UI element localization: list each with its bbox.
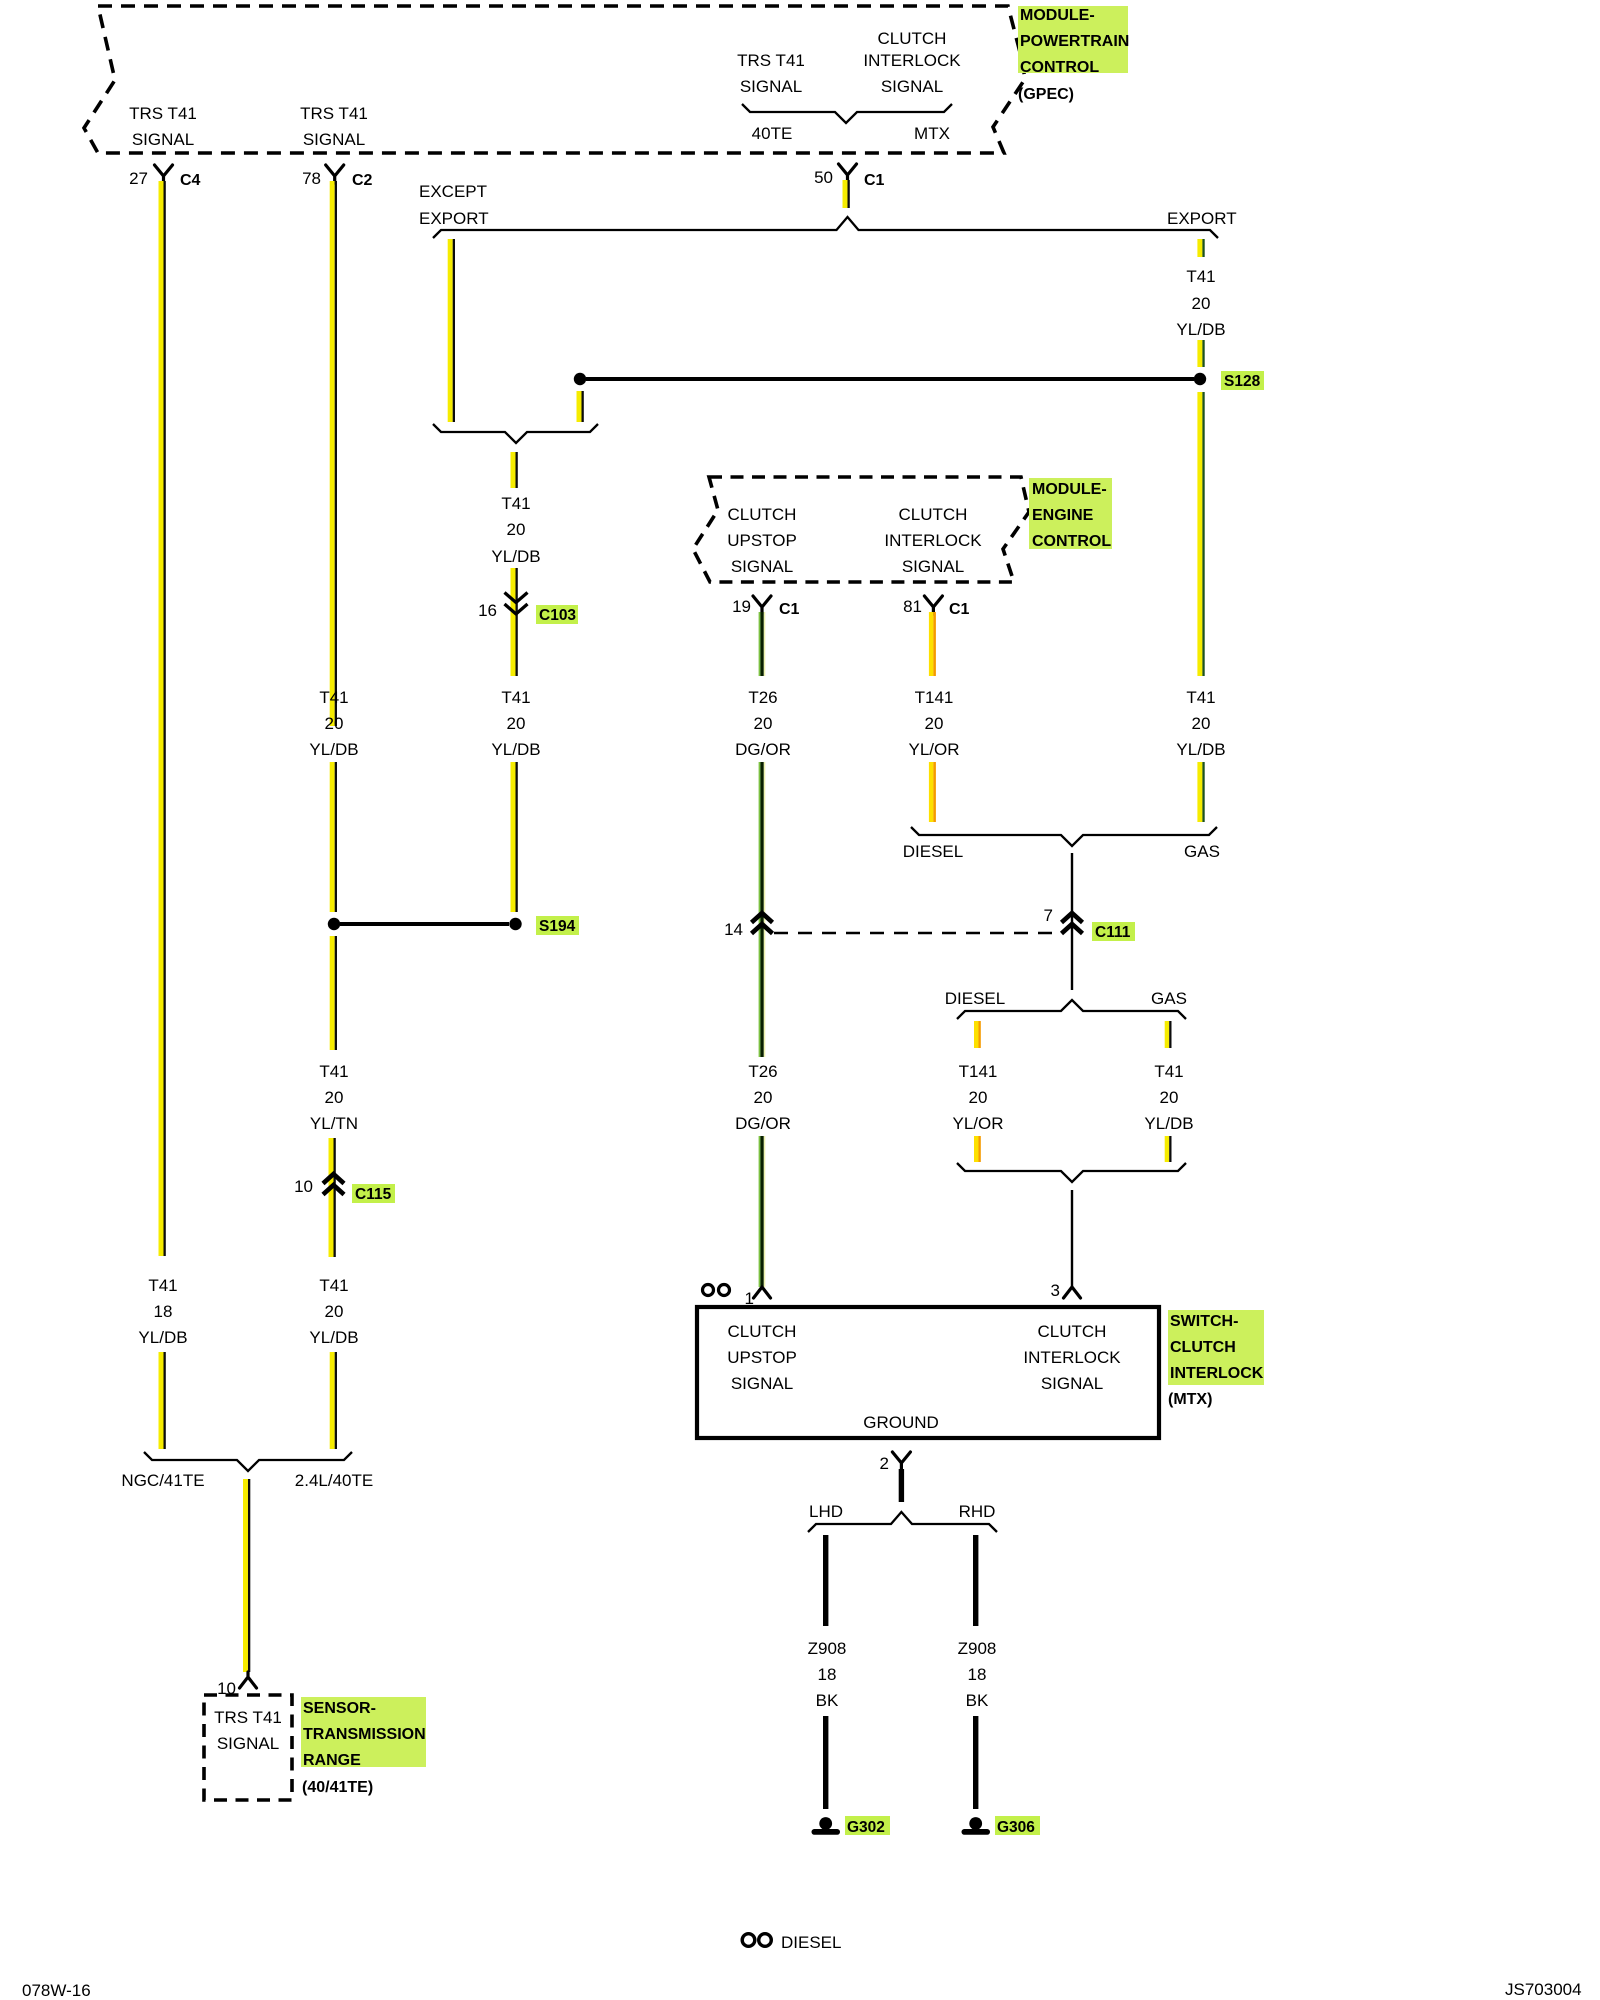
svg-text:YL/OR: YL/OR xyxy=(952,1114,1003,1133)
svg-text:Z908: Z908 xyxy=(808,1639,847,1658)
wire T41 YL/DB gas stub upper xyxy=(1165,1021,1172,1048)
svg-text:2.4L/40TE: 2.4L/40TE xyxy=(295,1471,373,1490)
svg-text:SIGNAL: SIGNAL xyxy=(731,557,793,576)
svg-text:T26: T26 xyxy=(748,688,777,707)
switch S1 CLUTCH INTERLOCK (MTX) box xyxy=(697,1307,1159,1438)
wire Z908 BK LHD lower xyxy=(823,1716,828,1809)
svg-text:SIGNAL: SIGNAL xyxy=(1041,1374,1103,1393)
svg-text:T41: T41 xyxy=(1186,267,1215,286)
ground G302 symbol xyxy=(819,1817,832,1830)
svg-text:YL/DB: YL/DB xyxy=(1176,740,1225,759)
svg-text:CLUTCH: CLUTCH xyxy=(878,29,947,48)
svg-text:EXPORT: EXPORT xyxy=(1167,209,1237,228)
svg-text:BK: BK xyxy=(966,1691,989,1710)
svg-text:SIGNAL: SIGNAL xyxy=(740,77,802,96)
svg-text:14: 14 xyxy=(724,920,743,939)
brace 40TE/MTX merge inside GPEC xyxy=(742,104,952,123)
svg-text:DIESEL: DIESEL xyxy=(945,989,1005,1008)
svg-text:20: 20 xyxy=(754,714,773,733)
svg-text:T41: T41 xyxy=(1154,1062,1183,1081)
svg-text:(MTX): (MTX) xyxy=(1168,1391,1212,1408)
svg-text:C103: C103 xyxy=(539,607,576,624)
wire T41 YL/DB gas stub lower xyxy=(1165,1136,1172,1162)
legend diesel marker OO xyxy=(742,1934,755,1947)
sensor B1 TRANSMISSION RANGE dashed box xyxy=(204,1695,292,1800)
svg-text:POWERTRAIN: POWERTRAIN xyxy=(1020,33,1129,50)
svg-text:INTERLOCK: INTERLOCK xyxy=(1170,1365,1264,1382)
svg-text:MODULE-: MODULE- xyxy=(1032,481,1107,498)
svg-text:20: 20 xyxy=(969,1088,988,1107)
svg-text:TRS T41: TRS T41 xyxy=(129,104,197,123)
svg-text:GAS: GAS xyxy=(1184,842,1220,861)
svg-text:078W-16: 078W-16 xyxy=(22,1981,91,2000)
svg-text:C115: C115 xyxy=(355,1186,392,1203)
svg-text:DG/OR: DG/OR xyxy=(735,740,791,759)
svg-text:GAS: GAS xyxy=(1151,989,1187,1008)
svg-text:T141: T141 xyxy=(959,1062,998,1081)
svg-text:10: 10 xyxy=(294,1177,313,1196)
splice S128 green tag xyxy=(1221,371,1264,390)
svg-text:78: 78 xyxy=(302,169,321,188)
svg-text:YL/DB: YL/DB xyxy=(1144,1114,1193,1133)
svg-text:NGC/41TE: NGC/41TE xyxy=(121,1471,204,1490)
wire Z908 BK RHD upper xyxy=(973,1535,978,1626)
node S128 junction dot (left) xyxy=(574,373,586,385)
wire C103 branch to S194 xyxy=(511,762,518,912)
svg-text:CLUTCH: CLUTCH xyxy=(1170,1339,1236,1356)
svg-text:SIGNAL: SIGNAL xyxy=(881,77,943,96)
svg-text:18: 18 xyxy=(818,1665,837,1684)
svg-text:INTERLOCK: INTERLOCK xyxy=(863,51,961,70)
ground G302 green tag xyxy=(845,1816,890,1835)
svg-text:YL/DB: YL/DB xyxy=(1176,320,1225,339)
svg-text:T41: T41 xyxy=(148,1276,177,1295)
wire T141 YL/OR stub below pin 81 xyxy=(929,612,936,676)
wire T26 DG/OR to switch pin1 xyxy=(759,1136,766,1287)
svg-text:19: 19 xyxy=(732,597,751,616)
module U1 POWERTRAIN CONTROL (GPEC) dashed outline xyxy=(84,6,1025,153)
wire C2 below label to S194 xyxy=(330,762,337,912)
svg-text:YL/DB: YL/DB xyxy=(491,740,540,759)
brace merge NGC/41TE + 2.4L/40TE xyxy=(144,1452,352,1471)
wire merged to switch pin 3 xyxy=(1071,1190,1073,1287)
svg-text:20: 20 xyxy=(754,1088,773,1107)
svg-text:T41: T41 xyxy=(501,494,530,513)
svg-text:T26: T26 xyxy=(748,1062,777,1081)
svg-text:MTX: MTX xyxy=(914,124,950,143)
svg-text:20: 20 xyxy=(1160,1088,1179,1107)
svg-text:C111: C111 xyxy=(1095,924,1131,941)
svg-text:UPSTOP: UPSTOP xyxy=(727,531,797,550)
svg-text:(GPEC): (GPEC) xyxy=(1018,86,1074,103)
wire C2 through C115 xyxy=(329,1138,336,1257)
svg-text:C1: C1 xyxy=(779,601,800,618)
svg-text:DG/OR: DG/OR xyxy=(735,1114,791,1133)
svg-text:C1: C1 xyxy=(949,601,970,618)
svg-text:SWITCH-: SWITCH- xyxy=(1170,1313,1238,1330)
brace split LHD/RHD xyxy=(808,1512,997,1532)
svg-text:YL/TN: YL/TN xyxy=(310,1114,358,1133)
green highlight SENSOR-TRANSMISSION RANGE xyxy=(301,1697,426,1767)
svg-text:20: 20 xyxy=(1192,294,1211,313)
svg-text:ENGINE: ENGINE xyxy=(1032,507,1094,524)
wire EXPORT branch T41 YL/DB top stub xyxy=(1197,239,1204,257)
wire C4 T41 YL/DB long run xyxy=(159,181,166,1256)
wire splice stub below S128 tee xyxy=(577,391,584,422)
wire C4 lower segment xyxy=(159,1352,166,1449)
svg-text:T41: T41 xyxy=(319,1062,348,1081)
brace split DIESEL/GAS lower xyxy=(957,1000,1186,1019)
wire Z908 BK LHD upper xyxy=(823,1535,828,1626)
svg-text:20: 20 xyxy=(1192,714,1211,733)
svg-text:SIGNAL: SIGNAL xyxy=(132,130,194,149)
svg-text:LHD: LHD xyxy=(809,1502,843,1521)
wire T141 YL/OR diesel stub upper xyxy=(974,1021,981,1048)
svg-text:20: 20 xyxy=(507,714,526,733)
svg-text:SIGNAL: SIGNAL xyxy=(902,557,964,576)
svg-text:CLUTCH: CLUTCH xyxy=(1038,1322,1107,1341)
wire export branch above S128 xyxy=(1197,340,1204,367)
brace merge DIESEL/GAS upper xyxy=(911,827,1217,846)
brace merge to C103 branch xyxy=(433,424,598,443)
wire Z908 BK stub below pin 2 xyxy=(899,1469,904,1502)
svg-text:C2: C2 xyxy=(352,172,373,189)
svg-text:EXCEPT: EXCEPT xyxy=(419,182,487,201)
wire S194 horizontal link xyxy=(340,922,509,926)
svg-text:40TE: 40TE xyxy=(752,124,793,143)
wire C2 below S194 xyxy=(330,936,337,1050)
svg-text:RHD: RHD xyxy=(959,1502,996,1521)
symbol diesel marker OO at pin 1 xyxy=(703,1285,714,1296)
svg-text:BK: BK xyxy=(816,1691,839,1710)
green highlight SWITCH-CLUTCH INTERLOCK xyxy=(1168,1310,1264,1385)
svg-text:DIESEL: DIESEL xyxy=(781,1933,841,1952)
svg-text:S194: S194 xyxy=(539,918,576,935)
svg-text:20: 20 xyxy=(325,714,344,733)
svg-text:T41: T41 xyxy=(319,688,348,707)
svg-text:7: 7 xyxy=(1044,906,1053,925)
svg-text:T41: T41 xyxy=(501,688,530,707)
svg-text:CONTROL: CONTROL xyxy=(1032,533,1111,550)
svg-text:INTERLOCK: INTERLOCK xyxy=(1023,1348,1121,1367)
wire C2 lower segment xyxy=(330,1352,337,1449)
wire T141 YL/OR to DIESEL brace xyxy=(929,762,936,822)
svg-text:YL/OR: YL/OR xyxy=(908,740,959,759)
wire T26 DG/OR through pin14 chevron xyxy=(759,762,766,1057)
svg-text:G306: G306 xyxy=(997,1819,1035,1836)
svg-text:GROUND: GROUND xyxy=(863,1413,939,1432)
splice S194 green tag xyxy=(536,916,579,935)
svg-text:T41: T41 xyxy=(319,1276,348,1295)
wire export branch to GAS brace xyxy=(1197,762,1204,822)
green highlight MODULE-ENGINE CONTROL xyxy=(1029,478,1112,549)
svg-text:SIGNAL: SIGNAL xyxy=(731,1374,793,1393)
svg-text:INTERLOCK: INTERLOCK xyxy=(884,531,982,550)
wire Z908 BK RHD lower xyxy=(973,1716,978,1809)
svg-text:TRS T41: TRS T41 xyxy=(300,104,368,123)
svg-text:20: 20 xyxy=(507,520,526,539)
svg-text:TRANSMISSION: TRANSMISSION xyxy=(303,1726,426,1743)
green highlight MODULE-POWERTRAIN CONTROL xyxy=(1018,6,1128,73)
wire S128 horizontal link xyxy=(586,377,1194,381)
wire merged through C111 to split brace xyxy=(1071,853,1073,990)
wire T41 YL/DB pin50 stub xyxy=(843,180,850,208)
svg-text:20: 20 xyxy=(925,714,944,733)
svg-text:RANGE: RANGE xyxy=(303,1752,361,1769)
svg-text:SENSOR-: SENSOR- xyxy=(303,1700,376,1717)
svg-text:EXPORT: EXPORT xyxy=(419,209,489,228)
svg-text:C4: C4 xyxy=(180,172,201,189)
svg-text:G302: G302 xyxy=(847,1819,885,1836)
svg-text:18: 18 xyxy=(154,1302,173,1321)
svg-text:CONTROL: CONTROL xyxy=(1020,59,1099,76)
svg-text:18: 18 xyxy=(968,1665,987,1684)
svg-text:20: 20 xyxy=(325,1088,344,1107)
svg-text:CLUTCH: CLUTCH xyxy=(728,505,797,524)
svg-text:C1: C1 xyxy=(864,172,885,189)
svg-text:20: 20 xyxy=(325,1302,344,1321)
svg-text:50: 50 xyxy=(814,168,833,187)
wire C103 branch stub below brace xyxy=(511,452,518,488)
svg-text:27: 27 xyxy=(129,169,148,188)
svg-text:S128: S128 xyxy=(1224,373,1261,390)
svg-text:YL/DB: YL/DB xyxy=(491,547,540,566)
node S194 dot right xyxy=(509,918,521,930)
svg-text:T141: T141 xyxy=(915,688,954,707)
svg-text:(40/41TE): (40/41TE) xyxy=(302,1779,373,1796)
module U2 ENGINE CONTROL dashed outline xyxy=(693,477,1029,582)
svg-text:Z908: Z908 xyxy=(958,1639,997,1658)
svg-text:DIESEL: DIESEL xyxy=(903,842,963,861)
svg-text:JS703004: JS703004 xyxy=(1505,1980,1582,1999)
svg-text:T41: T41 xyxy=(1186,688,1215,707)
brace merge diesel/gas bottom xyxy=(957,1163,1186,1182)
wire export branch below S128 to label xyxy=(1197,392,1204,676)
wire T26 DG/OR upper stub xyxy=(759,612,766,676)
svg-text:TRS T41: TRS T41 xyxy=(737,51,805,70)
svg-text:CLUTCH: CLUTCH xyxy=(728,1322,797,1341)
ground G306 symbol xyxy=(969,1817,982,1830)
wire except-export branch YL/DB upper xyxy=(448,239,455,422)
node S128 junction dot (right) xyxy=(1194,373,1206,385)
svg-text:YL/DB: YL/DB xyxy=(309,1328,358,1347)
svg-text:MODULE-: MODULE- xyxy=(1020,7,1095,24)
svg-text:3: 3 xyxy=(1051,1281,1060,1300)
wire dashed link pin14 to C111 xyxy=(774,932,1060,935)
svg-text:YL/DB: YL/DB xyxy=(138,1328,187,1347)
wire C2 T41 YL/DB upper run xyxy=(330,181,337,726)
svg-text:UPSTOP: UPSTOP xyxy=(727,1348,797,1367)
svg-text:SIGNAL: SIGNAL xyxy=(217,1734,279,1753)
svg-text:16: 16 xyxy=(478,601,497,620)
svg-text:YL/DB: YL/DB xyxy=(309,740,358,759)
svg-text:SIGNAL: SIGNAL xyxy=(303,130,365,149)
ground G306 green tag xyxy=(995,1816,1040,1835)
svg-text:TRS T41: TRS T41 xyxy=(214,1708,282,1727)
wire TRS sensor feed xyxy=(243,1479,250,1672)
wire T141 YL/OR diesel stub lower xyxy=(974,1136,981,1162)
svg-text:2: 2 xyxy=(880,1454,889,1473)
svg-text:81: 81 xyxy=(903,597,922,616)
brace split EXCEPT-EXPORT / EXPORT xyxy=(433,217,1218,238)
wire through C103 xyxy=(511,568,518,676)
svg-text:CLUTCH: CLUTCH xyxy=(899,505,968,524)
node S194 dot left xyxy=(328,918,340,930)
